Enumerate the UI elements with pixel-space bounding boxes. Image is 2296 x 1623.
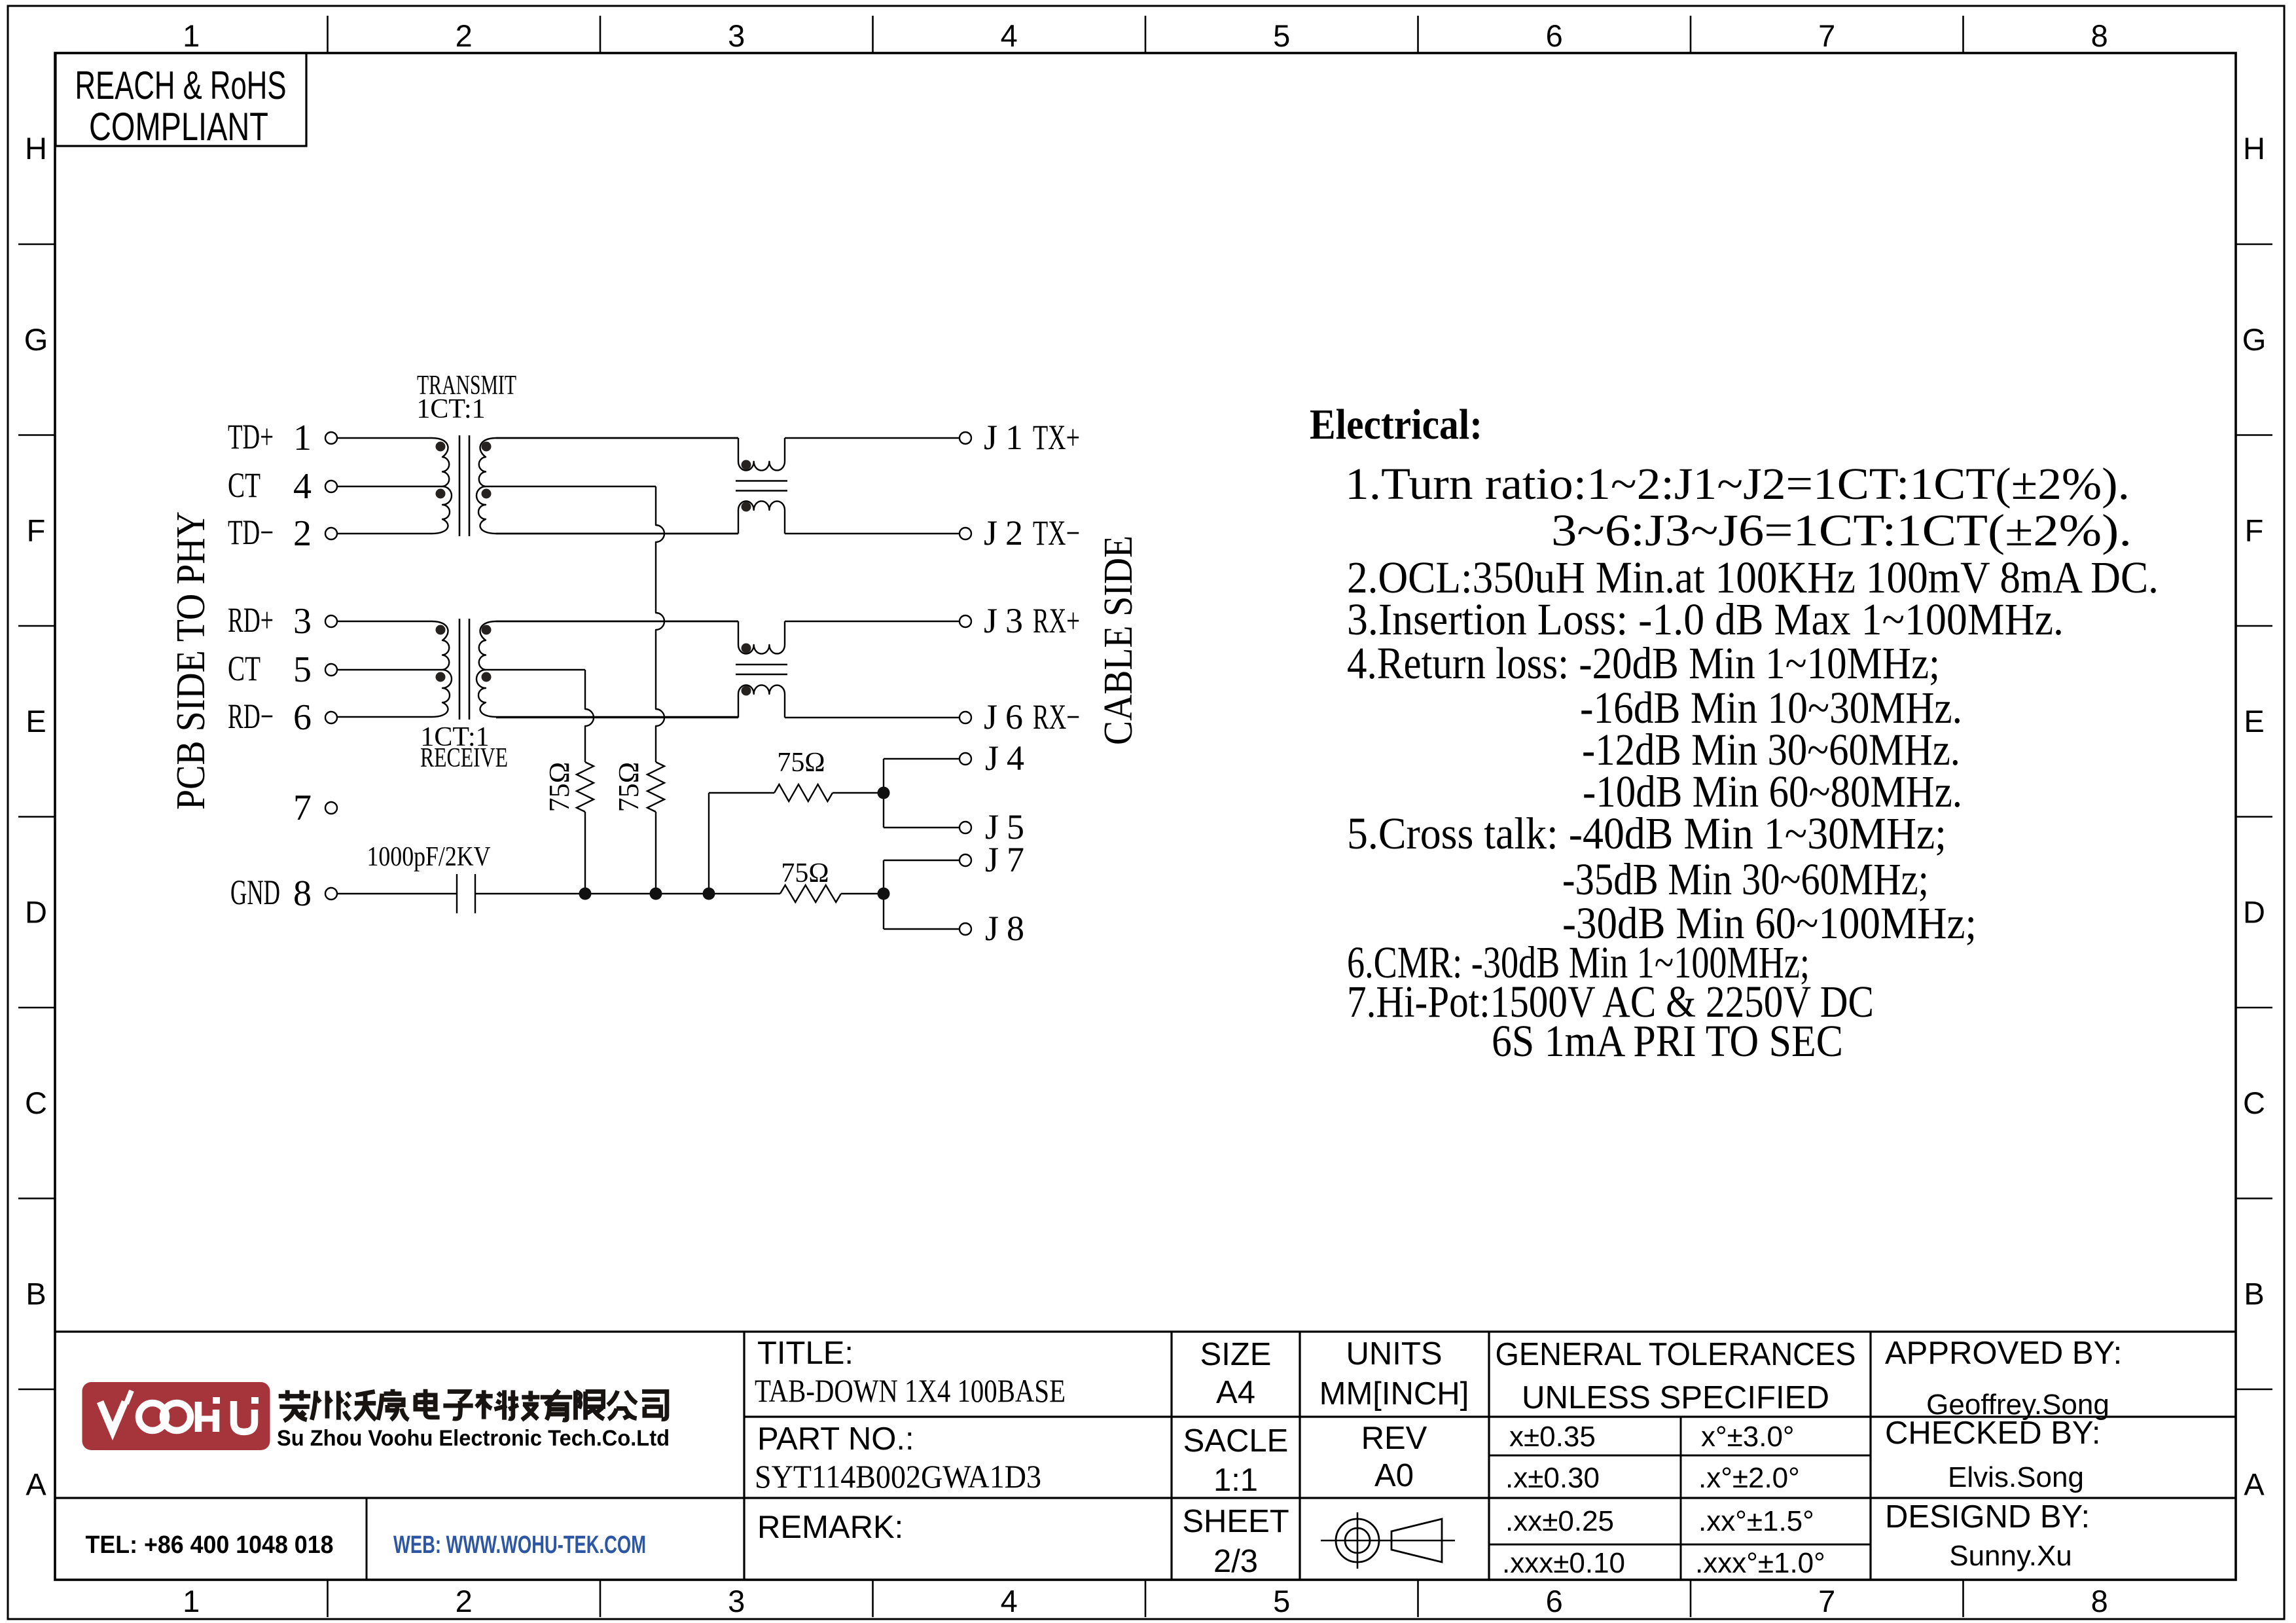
- svg-text:1: 1: [183, 1584, 200, 1618]
- svg-text:CABLE SIDE: CABLE SIDE: [1096, 536, 1141, 745]
- svg-text:REACH & RoHS: REACH & RoHS: [75, 64, 287, 107]
- svg-text:A: A: [26, 1467, 46, 1502]
- svg-text:PART NO.:: PART NO.:: [757, 1421, 914, 1457]
- svg-text:5: 5: [293, 649, 312, 690]
- svg-text:75Ω: 75Ω: [777, 748, 825, 778]
- svg-text:D: D: [25, 894, 47, 929]
- svg-text:G: G: [24, 322, 48, 357]
- svg-text:8: 8: [2091, 18, 2108, 53]
- svg-text:E: E: [26, 704, 46, 739]
- svg-text:SHEET: SHEET: [1182, 1504, 1289, 1539]
- svg-text:TEL: +86 400 1048 018: TEL: +86 400 1048 018: [86, 1531, 334, 1559]
- svg-text:APPROVED BY:: APPROVED BY:: [1885, 1336, 2122, 1371]
- svg-text:2: 2: [456, 18, 473, 53]
- svg-text:TD−: TD−: [228, 513, 274, 552]
- svg-text:REV: REV: [1361, 1421, 1427, 1456]
- svg-text:3: 3: [728, 18, 745, 53]
- svg-text:WEB: WWW.WOHU-TEK.COM: WEB: WWW.WOHU-TEK.COM: [393, 1531, 646, 1559]
- svg-text:x°±3.0°: x°±3.0°: [1701, 1421, 1795, 1453]
- svg-text:SIZE: SIZE: [1200, 1337, 1272, 1372]
- svg-text:4: 4: [293, 466, 312, 507]
- svg-text:1.Turn ratio:1~2:J1~J2=1CT:1CT: 1.Turn ratio:1~2:J1~J2=1CT:1CT(±2%).: [1345, 459, 2130, 509]
- svg-text:8: 8: [293, 873, 312, 914]
- svg-text:H: H: [25, 131, 47, 166]
- svg-text:H: H: [2243, 131, 2265, 166]
- svg-text:E: E: [2244, 704, 2264, 739]
- svg-text:RX+: RX+: [1033, 601, 1080, 640]
- svg-text:TITLE:: TITLE:: [757, 1336, 853, 1371]
- svg-text:REMARK:: REMARK:: [757, 1510, 903, 1545]
- svg-text:3: 3: [728, 1584, 745, 1618]
- svg-text:B: B: [2244, 1276, 2264, 1311]
- svg-text:F: F: [2245, 513, 2264, 547]
- svg-text:.xx±0.25: .xx±0.25: [1505, 1505, 1614, 1537]
- svg-text:PCB SIDE TO PHY: PCB SIDE TO PHY: [169, 511, 213, 810]
- svg-text:1CT:1: 1CT:1: [416, 394, 485, 424]
- svg-text:75Ω: 75Ω: [781, 858, 829, 888]
- svg-text:4.Return loss: -20dB Min 1~10M: 4.Return loss: -20dB Min 1~10MHz;: [1347, 638, 1940, 688]
- svg-text:2: 2: [293, 513, 312, 554]
- svg-text:RX−: RX−: [1033, 697, 1080, 737]
- svg-text:A: A: [2244, 1467, 2265, 1502]
- svg-text:7: 7: [1818, 18, 1835, 53]
- svg-text:1000pF/2KV: 1000pF/2KV: [367, 842, 491, 872]
- svg-text:x±0.35: x±0.35: [1509, 1421, 1596, 1453]
- svg-text:6: 6: [1546, 18, 1563, 53]
- svg-text:F: F: [27, 513, 46, 547]
- svg-text:RD−: RD−: [228, 697, 274, 736]
- svg-text:GND: GND: [230, 873, 280, 912]
- svg-text:C: C: [2243, 1085, 2265, 1120]
- svg-text:TD+: TD+: [228, 417, 274, 456]
- svg-text:Electrical:: Electrical:: [1310, 401, 1482, 448]
- svg-text:4: 4: [1001, 18, 1018, 53]
- svg-text:3~6:J3~J6=1CT:1CT(±2%).: 3~6:J3~J6=1CT:1CT(±2%).: [1551, 505, 2132, 555]
- svg-text:RD+: RD+: [228, 600, 274, 640]
- svg-text:5: 5: [1273, 1584, 1290, 1618]
- svg-text:.xx°±1.5°: .xx°±1.5°: [1698, 1505, 1814, 1537]
- svg-text:7: 7: [1818, 1584, 1835, 1618]
- svg-text:.x±0.30: .x±0.30: [1505, 1462, 1600, 1494]
- svg-text:Elvis.Song: Elvis.Song: [1948, 1461, 2084, 1493]
- svg-text:A4: A4: [1216, 1375, 1255, 1410]
- svg-text:RECEIVE: RECEIVE: [420, 743, 508, 773]
- svg-text:UNLESS SPECIFIED: UNLESS SPECIFIED: [1522, 1380, 1829, 1415]
- svg-text:6S 1mA PRI TO SEC: 6S 1mA PRI TO SEC: [1492, 1016, 1843, 1066]
- svg-text:75Ω: 75Ω: [543, 762, 575, 812]
- svg-text:Su Zhou Voohu Electronic Tech.: Su Zhou Voohu Electronic Tech.Co.Ltd: [277, 1426, 670, 1451]
- svg-text:4: 4: [1001, 1584, 1018, 1618]
- svg-text:SACLE: SACLE: [1183, 1423, 1289, 1459]
- svg-text:CHECKED BY:: CHECKED BY:: [1885, 1415, 2100, 1451]
- svg-text:Sunny.Xu: Sunny.Xu: [1949, 1540, 2072, 1572]
- svg-text:5: 5: [1273, 18, 1290, 53]
- svg-text:75Ω: 75Ω: [613, 762, 645, 812]
- svg-text:2/3: 2/3: [1213, 1544, 1258, 1579]
- svg-text:D: D: [2243, 894, 2265, 929]
- svg-text:1: 1: [293, 418, 312, 458]
- svg-text:B: B: [26, 1276, 46, 1311]
- svg-text:UNITS: UNITS: [1346, 1336, 1443, 1372]
- svg-text:.xxx°±1.0°: .xxx°±1.0°: [1695, 1547, 1825, 1579]
- svg-text:G: G: [2242, 322, 2267, 357]
- svg-text:DESIGND BY:: DESIGND BY:: [1885, 1499, 2090, 1535]
- svg-text:5.Cross talk: -40dB Min 1~30MH: 5.Cross talk: -40dB Min 1~30MHz;: [1347, 809, 1946, 858]
- svg-text:CT: CT: [228, 649, 260, 688]
- svg-text:C: C: [25, 1085, 47, 1120]
- svg-text:TAB-DOWN 1X4 100BASE: TAB-DOWN 1X4 100BASE: [755, 1372, 1066, 1409]
- svg-text:CT: CT: [228, 465, 260, 505]
- svg-text:7: 7: [293, 788, 312, 828]
- svg-text:3: 3: [293, 601, 312, 642]
- svg-text:COMPLIANT: COMPLIANT: [89, 105, 268, 149]
- svg-text:8: 8: [2091, 1584, 2108, 1618]
- svg-text:.x°±2.0°: .x°±2.0°: [1698, 1462, 1800, 1494]
- svg-text:SYT114B002GWA1D3: SYT114B002GWA1D3: [755, 1458, 1041, 1495]
- svg-text:6: 6: [293, 697, 312, 738]
- svg-text:.xxx±0.10: .xxx±0.10: [1502, 1547, 1625, 1579]
- svg-text:TX+: TX+: [1033, 418, 1080, 457]
- svg-text:TX−: TX−: [1033, 513, 1080, 553]
- svg-text:GENERAL TOLERANCES: GENERAL TOLERANCES: [1496, 1337, 1856, 1372]
- svg-text:MM[INCH]: MM[INCH]: [1319, 1376, 1469, 1412]
- svg-text:2: 2: [456, 1584, 473, 1618]
- svg-text:1:1: 1:1: [1213, 1463, 1258, 1498]
- svg-text:-35dB Min 30~60MHz;: -35dB Min 30~60MHz;: [1562, 854, 1929, 904]
- svg-text:A0: A0: [1374, 1458, 1414, 1493]
- svg-text:1: 1: [183, 18, 200, 53]
- svg-text:6: 6: [1546, 1584, 1563, 1618]
- svg-text:3.Insertion Loss: -1.0 dB Max: 3.Insertion Loss: -1.0 dB Max 1~100MHz.: [1347, 594, 2064, 644]
